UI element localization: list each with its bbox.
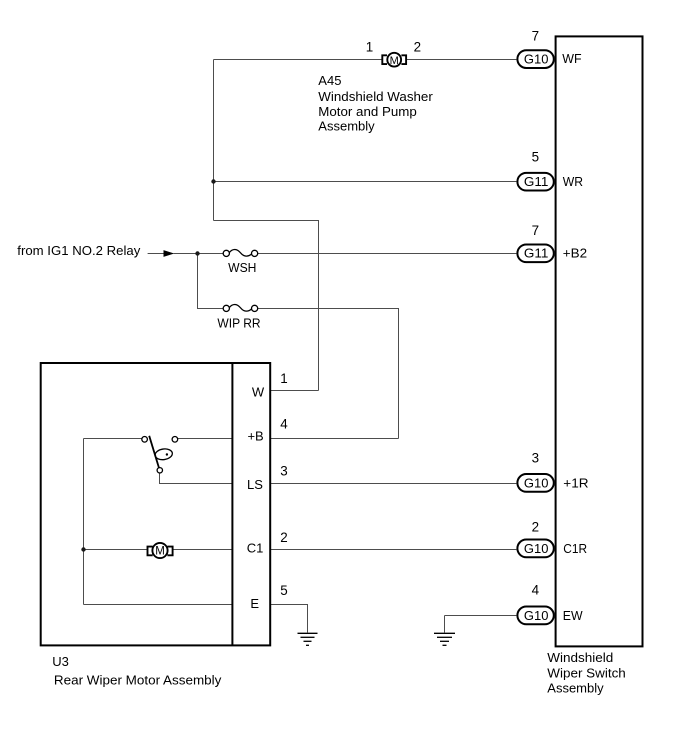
- svg-text:Rear Wiper Motor Assembly: Rear Wiper Motor Assembly: [54, 673, 222, 688]
- svg-text:G10: G10: [524, 52, 549, 66]
- svg-text:Motor and Pump: Motor and Pump: [318, 104, 417, 119]
- svg-text:WF: WF: [562, 51, 581, 66]
- svg-text:7: 7: [532, 223, 539, 238]
- svg-text:WIP RR: WIP RR: [217, 316, 260, 330]
- svg-text:U3: U3: [52, 654, 69, 669]
- svg-text:G11: G11: [524, 175, 549, 189]
- svg-text:2: 2: [414, 39, 421, 54]
- svg-text:G10: G10: [524, 609, 549, 623]
- svg-text:Assembly: Assembly: [318, 119, 375, 134]
- svg-text:5: 5: [532, 149, 539, 164]
- svg-text:EW: EW: [563, 608, 583, 623]
- svg-text:4: 4: [280, 417, 288, 432]
- svg-text:2: 2: [280, 530, 287, 545]
- svg-text:3: 3: [280, 463, 287, 478]
- svg-text:M: M: [155, 546, 165, 558]
- svg-text:C1R: C1R: [563, 541, 587, 556]
- svg-text:1: 1: [366, 39, 373, 54]
- svg-text:C1: C1: [247, 541, 264, 556]
- svg-text:+1R: +1R: [563, 475, 588, 490]
- svg-text:4: 4: [532, 583, 540, 598]
- svg-text:Windshield: Windshield: [547, 650, 613, 665]
- svg-text:2: 2: [532, 519, 539, 534]
- svg-text:1: 1: [280, 371, 287, 386]
- svg-text:+B2: +B2: [563, 246, 587, 261]
- svg-text:M: M: [390, 55, 399, 67]
- svg-text:G10: G10: [524, 542, 549, 556]
- svg-text:G10: G10: [524, 476, 549, 490]
- svg-text:from IG1 NO.2 Relay: from IG1 NO.2 Relay: [17, 243, 140, 258]
- svg-text:A45: A45: [318, 73, 341, 88]
- svg-text:WSH: WSH: [228, 261, 256, 275]
- svg-text:7: 7: [532, 28, 539, 43]
- svg-text:Windshield Washer: Windshield Washer: [318, 89, 433, 104]
- svg-text:W: W: [252, 384, 265, 399]
- svg-text:3: 3: [532, 451, 539, 466]
- svg-text:WR: WR: [563, 174, 583, 189]
- svg-text:G11: G11: [524, 247, 549, 261]
- svg-text:5: 5: [280, 583, 287, 598]
- svg-text:+B: +B: [247, 429, 263, 444]
- svg-text:Wiper Switch: Wiper Switch: [547, 665, 626, 680]
- svg-text:Assembly: Assembly: [547, 681, 604, 696]
- svg-text:LS: LS: [247, 477, 263, 492]
- svg-text:E: E: [250, 596, 259, 611]
